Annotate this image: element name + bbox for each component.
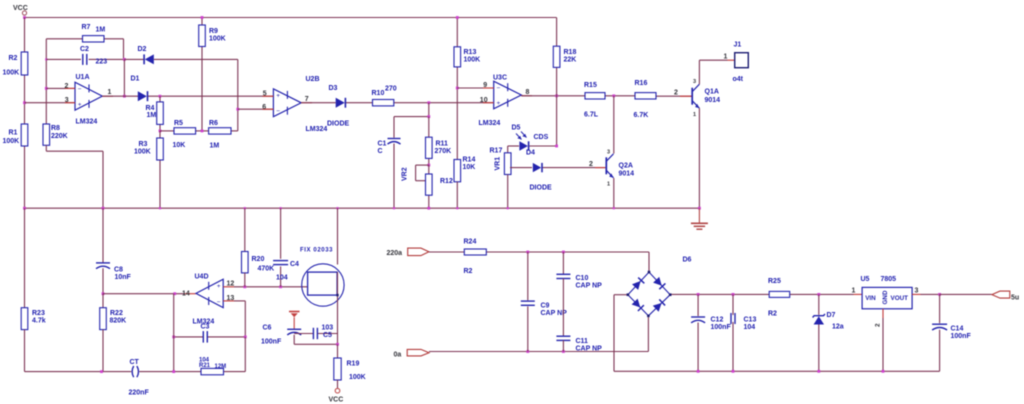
svg-text:FIX 02033: FIX 02033 [300,248,333,254]
node C3 right junction [244,336,247,339]
svg-text:VR2: VR2 [402,167,409,181]
svg-text:U3C: U3C [493,75,507,82]
wire R21 bottom row [25,371,132,373]
bridge rectifier D6 [648,252,650,272]
svg-text:2: 2 [65,83,69,90]
svg-text:220nF: 220nF [129,390,150,397]
node C3 left junction [172,336,175,339]
svg-text:C3: C3 [201,324,210,331]
resistor R15 [585,93,605,99]
capacitor C3 [174,336,204,338]
svg-text:C: C [378,148,383,155]
svg-text:R22: R22 [110,310,123,317]
power rail VCC top [25,17,557,19]
svg-text:9014: 9014 [705,97,721,104]
wire R8 bottom jog [45,145,47,151]
svg-text:LM324: LM324 [479,120,501,127]
node VCC junction [23,16,26,19]
wire right column x238 [237,59,239,130]
svg-text:+: + [497,100,501,107]
node C10 top junction [562,251,565,254]
resistor R12 [428,165,430,174]
svg-text:R25: R25 [768,278,781,285]
resistor R22 [102,294,104,308]
wire DC plus row [698,293,733,295]
node R15/R16 junction [612,94,615,97]
node C4 junction [279,285,282,288]
svg-text:1: 1 [607,182,610,188]
svg-text:R18: R18 [564,49,577,56]
wire 220 row [429,251,464,253]
node R4/R5 junction [159,130,162,133]
svg-text:7805: 7805 [881,276,897,283]
resistor R24 [464,249,486,255]
svg-text:VR1: VR1 [495,157,502,171]
op-amp U2B [238,108,274,110]
capacitor C5 [294,333,313,335]
svg-text:R14: R14 [463,157,476,164]
svg-text:3: 3 [607,150,610,156]
wire R5 row [160,130,174,132]
svg-text:C2: C2 [80,46,89,53]
svg-text:1: 1 [724,54,728,61]
svg-text:VOUT: VOUT [891,295,909,302]
svg-text:CAP NP: CAP NP [576,283,603,290]
capacitor C2 [46,58,81,60]
resistor R25 [769,291,790,297]
svg-text:10K: 10K [463,164,476,171]
svg-text:0a: 0a [394,352,402,359]
svg-text:R3: R3 [139,141,148,148]
resistor R5 [174,128,196,134]
svg-text:100K: 100K [3,138,20,145]
potentiometer VR1 R17 [504,153,511,175]
node U4D output junction [173,292,176,295]
wire U2B output row [301,102,336,104]
svg-text:C9: C9 [541,303,550,310]
svg-text:CAP NP: CAP NP [576,346,603,353]
svg-text:C11: C11 [576,338,589,345]
capacitor C1 [388,138,401,140]
transistor Q1A [680,95,692,97]
wire VR2 loop [416,164,429,166]
node pin9 junction [456,87,459,90]
capacitor C4 [280,208,282,259]
oscillator FIX 02033 [337,208,339,264]
resistor R14 [454,160,461,182]
svg-text:22K: 22K [564,57,577,64]
svg-text:C6: C6 [263,325,272,332]
node C13 bottom junction [732,370,735,373]
svg-text:VIN: VIN [865,295,876,302]
node R20 junction [243,285,246,288]
bridge diode bottom-left [632,299,644,311]
svg-text:3: 3 [915,288,919,295]
node C12 top junction [697,293,700,296]
svg-text:DIODE: DIODE [327,121,350,128]
resistor R16 [635,93,656,99]
svg-text:R2: R2 [464,268,473,275]
svg-text:D6: D6 [683,257,692,264]
wire C6 bottom row [294,343,337,345]
node CT junctions [100,370,103,373]
bridge diode bottom-right [653,299,665,311]
capacitor C9 [527,252,529,300]
capacitor C12 [697,294,699,316]
resistor R10 [373,100,394,106]
op-amp U1A [46,87,75,89]
svg-text:100K: 100K [3,70,20,77]
ground return row [614,370,940,372]
svg-text:U1A: U1A [76,74,90,81]
svg-text:VCC: VCC [13,5,28,12]
svg-text:D3: D3 [329,85,338,92]
svg-text:12: 12 [227,280,235,287]
svg-text:8: 8 [526,89,530,96]
resistor R9 [201,18,203,26]
capacitor C10 [562,252,564,274]
svg-text:R17: R17 [490,148,503,155]
svg-text:3: 3 [65,97,69,104]
svg-text:D1: D1 [131,76,140,83]
node R10 output junction [427,101,430,104]
wire left column [24,18,26,53]
node D7 junction [817,293,820,296]
mid ground rail [25,207,700,209]
svg-text:DIODE: DIODE [530,185,553,192]
wire feedback column U4D [173,294,175,372]
resistor R1 [21,124,28,146]
svg-text:12M: 12M [215,364,227,370]
svg-text:100nF: 100nF [951,333,972,340]
svg-text:6: 6 [262,104,266,111]
node feedback-output junction [123,95,126,98]
wire U3C output row [521,95,585,97]
svg-text:6.7K: 6.7K [634,112,649,119]
ground symbol [698,208,700,223]
resistor R6 [209,128,231,134]
svg-text:−: − [276,108,280,115]
svg-text:C14: C14 [951,326,964,333]
wire pin13 column [234,300,245,302]
svg-text:C12: C12 [711,317,724,324]
zener diode D7 [818,294,820,314]
svg-text:14: 14 [182,291,190,298]
resistor R13 [456,18,458,47]
wire feedback column [45,39,47,124]
resistor R19 [337,344,339,358]
node C9 top junction [526,251,529,254]
svg-text:C10: C10 [576,275,589,282]
svg-text:820K: 820K [110,318,127,325]
wire feedback to output [123,59,125,96]
VCC symbol top-left [22,11,26,15]
node pin3 junction [23,101,26,104]
svg-text:220a: 220a [387,250,403,257]
node pin6 junction [236,108,239,111]
bridge diode top-left [632,278,644,290]
svg-text:−: − [497,85,501,92]
svg-text:7: 7 [305,96,309,103]
svg-text:D5: D5 [512,125,521,132]
svg-text:100nF: 100nF [261,339,282,346]
resistor R20 [244,208,246,251]
svg-text:10K: 10K [173,142,186,149]
svg-text:+: + [78,101,82,108]
svg-text:R19: R19 [347,361,360,368]
diode DIODE row [510,167,532,169]
regulator U5 7805 [862,287,912,308]
svg-text:12a: 12a [832,324,844,331]
diode D3 [336,98,345,108]
svg-text:GND: GND [882,290,889,304]
svg-text:223: 223 [96,59,108,66]
svg-text:3: 3 [693,79,696,85]
VCC port bottom [337,380,339,388]
svg-text:D4: D4 [526,150,535,157]
node R18 output junction [555,94,558,97]
svg-text:LM324: LM324 [306,126,328,133]
node C14 junction [938,293,941,296]
svg-text:10nF: 10nF [115,274,132,281]
svg-text:R5: R5 [174,120,183,127]
node D4 row junction [555,145,558,148]
svg-text:VCC: VCC [329,397,344,404]
svg-text:104: 104 [744,324,756,331]
svg-text:220K: 220K [51,133,68,140]
capacitor C8 [102,208,104,263]
capacitor C13 [732,294,734,315]
resistor R8 [43,124,50,145]
svg-text:+: + [217,283,221,290]
svg-text:R20: R20 [252,256,265,263]
svg-text:470K: 470K [258,266,275,273]
svg-text:1M: 1M [96,27,106,34]
wire pin12 row [234,286,308,288]
svg-text:100K: 100K [209,36,226,43]
svg-text:C8: C8 [114,267,123,274]
svg-text:5u: 5u [1011,295,1019,302]
wire 0 row [429,351,648,353]
svg-text:−: − [217,299,221,306]
svg-text:C1: C1 [378,141,387,148]
red antenna symbol [289,311,300,313]
svg-text:J1: J1 [734,42,742,49]
svg-text:R2: R2 [9,55,18,62]
svg-text:R8: R8 [51,125,60,132]
svg-text:1: 1 [852,288,856,295]
wire left col to R23 [24,208,26,308]
op-amp U3C [457,87,493,89]
node C12 bottom junction [697,370,700,373]
node D7 bottom junction [817,370,820,373]
svg-text:4.7k: 4.7k [32,318,46,325]
svg-text:6.7L: 6.7L [584,112,599,119]
transistor Q2A [613,96,615,154]
svg-text:CT: CT [130,359,140,366]
wire C1/R11 column [428,103,430,117]
node U5 gnd bottom junction [882,370,885,373]
node C11 bottom junction [562,350,565,353]
node C9 bottom junction [526,350,529,353]
svg-text:R21: R21 [199,363,211,369]
node R13 top junction [456,16,459,19]
photodiode D5 CDS [507,146,509,153]
svg-text:C13: C13 [744,317,757,324]
wire U5 output [912,293,920,295]
wire U1A output row [102,95,138,97]
diode D2 [124,58,144,60]
capacitor CT [132,366,134,377]
node pin2 junction [45,87,48,90]
node C13 top junction [732,293,735,296]
svg-text:100nF: 100nF [711,324,732,331]
svg-text:C5: C5 [323,332,332,339]
svg-text:R13: R13 [464,49,477,56]
svg-text:R24: R24 [464,239,477,246]
svg-text:104: 104 [276,275,288,282]
svg-text:100K: 100K [464,57,481,64]
svg-text:10: 10 [480,97,488,104]
svg-text:2: 2 [674,90,678,97]
wire U5 gnd pin [882,309,884,318]
node C2/R7 right junction [123,58,126,61]
svg-text:R7: R7 [82,24,91,31]
diode D1 [138,91,147,101]
svg-text:2: 2 [589,161,593,168]
svg-text:R4: R4 [146,105,155,112]
svg-text:CDS: CDS [534,134,549,141]
svg-text:+: + [276,93,280,100]
capacitor C6 [287,328,301,330]
svg-text:9: 9 [483,82,487,89]
svg-text:270K: 270K [435,148,452,155]
resistor R2 [21,52,28,75]
svg-text:2: 2 [875,323,882,327]
svg-text:U4D: U4D [195,274,209,281]
svg-text:o4t: o4t [733,76,744,83]
svg-text:R15: R15 [584,82,597,89]
svg-text:1: 1 [108,89,112,96]
bridge diode top-right [653,277,665,289]
svg-text:103: 103 [322,325,334,332]
svg-text:270: 270 [385,86,397,93]
resistor R21 [201,368,224,374]
svg-text:5: 5 [263,90,267,97]
svg-text:D2: D2 [138,46,147,53]
capacitor C11 [556,335,570,337]
svg-text:LM324: LM324 [76,119,98,126]
svg-text:R23: R23 [32,310,45,317]
svg-text:9014: 9014 [619,171,635,178]
svg-text:100K: 100K [134,148,151,155]
svg-text:1: 1 [693,112,696,118]
capacitor C14 [939,294,941,323]
svg-text:D7: D7 [827,312,836,319]
resistor R4 [159,96,161,102]
resistor R3 [159,131,161,138]
svg-text:Q2A: Q2A [619,163,633,170]
connector J1 [699,59,727,61]
svg-text:13: 13 [227,295,235,302]
svg-text:100K: 100K [349,374,366,381]
resistor R23 [21,308,28,330]
node C8/R22/out junction [102,292,105,295]
svg-text:C4: C4 [290,261,299,268]
node C5/C6 junction [336,343,339,346]
op-amp U4D [196,279,223,307]
svg-text:R6: R6 [209,120,218,127]
svg-text:R11: R11 [436,141,449,148]
svg-text:−: − [78,86,82,93]
port 5u output [992,291,1010,298]
svg-text:U5: U5 [861,276,870,283]
node C2 left [45,58,47,60]
resistor R11 [428,117,430,138]
wire U4D output row [103,293,185,295]
svg-text:R9: R9 [209,28,218,35]
resistor R7 [46,38,82,40]
node C1 branch junction [427,115,430,118]
svg-text:R1: R1 [9,130,18,137]
svg-text:R2: R2 [768,311,777,318]
svg-text:1M: 1M [210,143,220,150]
svg-text:1M: 1M [147,112,157,119]
svg-text:R16: R16 [635,80,648,87]
node oscillator corner [336,294,338,296]
node R5/R6 junction [201,130,204,133]
svg-text:U2B: U2B [306,76,320,83]
resistor R18 [556,18,558,47]
node R9 top junction [201,16,204,19]
node R11/R12 junction [427,164,430,167]
svg-text:R10: R10 [372,90,385,97]
node D1 output junction [159,95,162,98]
svg-text:Q1A: Q1A [705,89,719,96]
svg-text:R12: R12 [440,178,453,185]
